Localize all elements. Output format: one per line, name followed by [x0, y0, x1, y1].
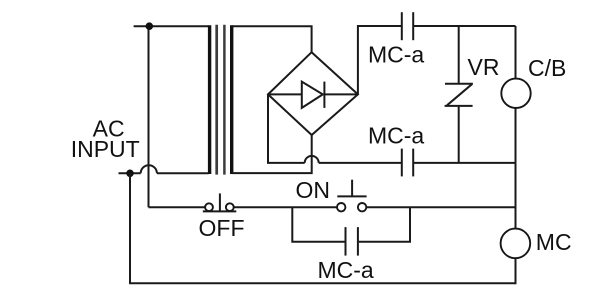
- transformer T1 primary winding bar: [208, 25, 211, 174]
- wire holding branch right side: [359, 207, 410, 242]
- svg-text:MC-a: MC-a: [368, 123, 424, 149]
- wire secondary top to bridge: [232, 26, 312, 52]
- svg-text:VR: VR: [468, 54, 500, 80]
- wire secondary bottom to bridge bottom vertex: [232, 135, 312, 173]
- contact MC-a (middle) left bar: [401, 149, 403, 177]
- contact MC-a (middle) right bar: [412, 149, 414, 177]
- svg-text:MC: MC: [536, 229, 572, 255]
- svg-text:MC-a: MC-a: [368, 42, 424, 68]
- pushbutton OFF right circle: [226, 203, 234, 211]
- wire holding branch left vertical: [292, 207, 344, 242]
- diode cathode lead to right vertex: [324, 93, 358, 95]
- contact MC-a (holding) left bar: [345, 227, 347, 256]
- breaker C/B circle: [501, 79, 530, 108]
- svg-text:INPUT: INPUT: [71, 136, 140, 162]
- pushbutton ON left circle: [337, 203, 345, 211]
- wire right vertical top segment to C/B: [515, 26, 517, 79]
- contact MC-a (top) right bar: [412, 12, 414, 40]
- pushbutton OFF left circle: [205, 203, 213, 211]
- wire AC input bottom stub: [119, 172, 141, 174]
- node B (AC bottom junction dot): [126, 170, 134, 178]
- wire control tap vertical from top node down to control line: [148, 26, 150, 207]
- wire right vertical below MC to bottom rail: [515, 258, 517, 284]
- pushbutton ON contact bar (open, above circles): [337, 195, 366, 197]
- transformer T1 secondary winding bar: [230, 25, 233, 174]
- contactor coil MC circle: [501, 229, 531, 259]
- pushbutton ON plunger: [351, 180, 353, 197]
- wire bridge left vertex down and right: [268, 94, 305, 162]
- contact MC-a (top) left bar: [401, 12, 403, 40]
- wire VR bottom lead: [458, 106, 460, 163]
- wire from contact to C/B branch: [413, 25, 515, 27]
- wire hop over control tap: [141, 165, 157, 173]
- wire AC input top stub to transformer primary top: [134, 25, 209, 27]
- pushbutton ON right circle: [358, 203, 366, 211]
- wire OFF to ON: [234, 206, 337, 208]
- transformer T1 core line 2: [223, 25, 226, 175]
- wire ON to MC coil branch: [366, 206, 515, 208]
- svg-text:MC-a: MC-a: [318, 257, 374, 283]
- wire VR tap vertical: [458, 26, 460, 84]
- wire right vertical C/B to MC: [515, 108, 517, 229]
- wire left vertical down to bottom rail: [129, 173, 131, 283]
- varistor VR zigzag diagonal: [447, 84, 472, 105]
- diode triangle: [302, 82, 323, 108]
- svg-text:C/B: C/B: [528, 55, 566, 81]
- wire contact to right vertical junction: [413, 162, 515, 164]
- wire bottom rail: [129, 282, 515, 284]
- wire bridge right vertex up and right to contact MC-a: [358, 26, 402, 94]
- wire primary bottom to transformer: [157, 172, 209, 174]
- pushbutton OFF contact bar (closed, under circles): [203, 210, 237, 212]
- node A (AC top junction dot): [146, 22, 154, 30]
- svg-text:OFF: OFF: [199, 215, 245, 241]
- wire control line from tap to OFF button: [149, 206, 206, 208]
- diode cathode bar: [323, 82, 325, 108]
- wire to contact MC-a (middle): [319, 162, 402, 164]
- pushbutton OFF plunger: [219, 193, 221, 211]
- varistor VR zigzag top bar: [445, 83, 473, 85]
- svg-text:ON: ON: [296, 177, 331, 203]
- varistor VR zigzag bottom bar: [445, 105, 473, 107]
- bridge rectifier D1 diamond: [268, 52, 358, 135]
- wire hop over bridge bottom lead: [305, 156, 319, 163]
- transformer T1 core line 1: [215, 25, 218, 175]
- diode anode lead inside bridge: [268, 93, 302, 95]
- contact MC-a (holding) right bar: [357, 227, 359, 256]
